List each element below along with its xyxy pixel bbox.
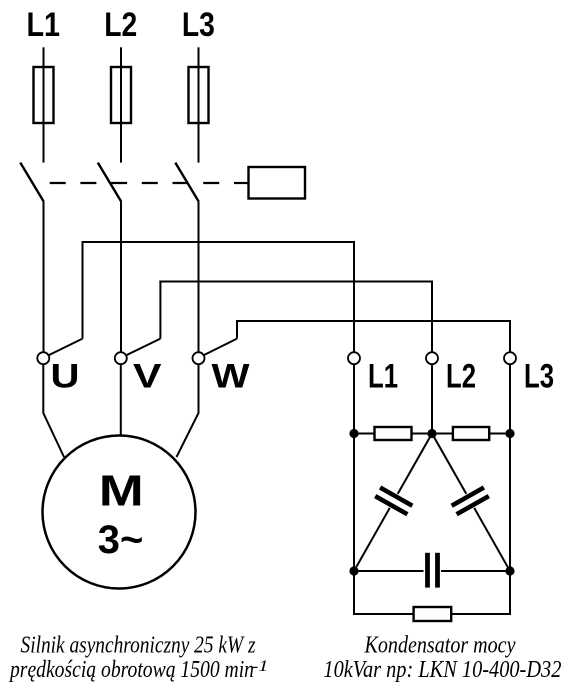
junction dot bus L1 [349,429,358,438]
svg-text:Kondensator mocy: Kondensator mocy [364,633,516,659]
wire terminal W to motor [177,364,199,457]
svg-text:L1: L1 [26,6,60,44]
capacitor C2 plate b [457,496,489,514]
resistor R3 discharge [414,607,452,621]
svg-text:M: M [99,467,144,516]
wire terminal V to motor [120,364,122,437]
capacitor C2 plate a [452,488,484,506]
wire capacitor L1 terminal to bus [353,364,355,433]
wire delta right diagonal lower segment [474,508,510,571]
wire L3 contact to terminal W [198,202,200,353]
wire branch V riser [159,281,161,339]
capacitor C3 plate b [435,553,440,588]
wire branch W horizontal bus [236,320,511,322]
wire left side of capacitor bank [353,434,355,572]
wire right side of capacitor bank [509,434,511,572]
svg-text:V: V [133,358,162,396]
wire branch W riser [236,320,238,339]
capacitor terminal L1 circle [348,352,360,364]
junction dot delta bottom right [505,566,514,575]
wire top bus segment 1 [354,433,375,435]
fuse F1 [34,67,54,123]
junction dot bus L2 [427,429,436,438]
wire L1 from supply through fuse to contact [43,47,45,162]
resistor R2 discharge [453,427,489,440]
svg-text:L1: L1 [368,357,398,395]
svg-text:L3: L3 [182,6,215,44]
capacitor terminal L2 circle [426,352,438,364]
wire L1 contact to terminal U [43,202,45,353]
contactor pole 1 blade [20,163,44,202]
terminal U circle [37,352,49,364]
wire lower right drop [509,571,511,614]
svg-text:L3: L3 [524,357,554,395]
wire top bus segment 2 [412,433,453,435]
wire capacitor L2 terminal to bus [431,364,433,433]
contactor pole 3 blade [175,163,199,202]
wire branch V drop to capacitor terminal L2 [431,281,433,354]
contactor coil K1 box [249,167,306,199]
wire branch U horizontal bus [82,241,356,243]
capacitor C3 plate a [425,553,430,588]
wire terminal U to motor [43,364,64,457]
wire delta bottom left segment [354,570,424,572]
junction dot bus L3 [505,429,514,438]
wire lead to contactor coil [234,182,249,184]
capacitor C1 plate a [380,488,412,506]
terminal W circle [193,352,205,364]
wire branch U riser [82,241,84,339]
wire branch W to capacitor L3: diagonal [199,339,237,358]
svg-text:Silnik asynchroniczny 25 kW z: Silnik asynchroniczny 25 kW z [21,633,257,659]
contactor linkage dashed line [50,182,220,184]
motor M1 circle [43,436,196,589]
capacitor terminal L3 circle [504,352,516,364]
wire top bus segment 3 [489,433,510,435]
svg-text:L2: L2 [446,357,476,395]
wire bottom rail right segment [451,613,511,615]
contactor pole 2 blade [98,163,122,202]
svg-text:L2: L2 [104,6,137,44]
svg-text:prędkością obrotową 1500 min: prędkością obrotową 1500 min [8,657,254,683]
wire branch U to capacitor L1: diagonal [44,339,83,358]
svg-text:-1: -1 [252,658,269,675]
wire L2 contact to terminal V [120,202,122,353]
wire L2 from supply through fuse to contact [120,47,122,162]
fuse F2 [111,67,131,123]
wire L3 from supply through fuse to contact [198,47,200,162]
svg-text:W: W [212,358,251,396]
wire delta right diagonal upper segment [432,434,466,494]
junction dot delta bottom left [349,566,358,575]
wire delta bottom right segment [441,570,510,572]
svg-text:3~: 3~ [98,518,144,562]
wire delta left diagonal lower segment [354,508,390,571]
wire capacitor L3 terminal to bus [509,364,511,433]
wire branch U drop to capacitor terminal L1 [353,241,355,353]
wire delta left diagonal upper segment [398,434,432,494]
svg-text:U: U [51,358,80,396]
fuse F3 [189,67,209,123]
capacitor C1 plate b [375,496,407,514]
svg-text:10kVar np: LKN 10-400-D32: 10kVar np: LKN 10-400-D32 [323,657,561,683]
resistor R1 discharge [375,427,412,440]
terminal V circle [115,352,127,364]
wire bottom rail left segment [353,613,414,615]
wire branch V horizontal bus [159,281,433,283]
wire lower left drop [353,571,355,614]
wire branch V to capacitor L2: diagonal [122,339,161,358]
wire branch W drop to capacitor terminal L3 [509,320,511,353]
